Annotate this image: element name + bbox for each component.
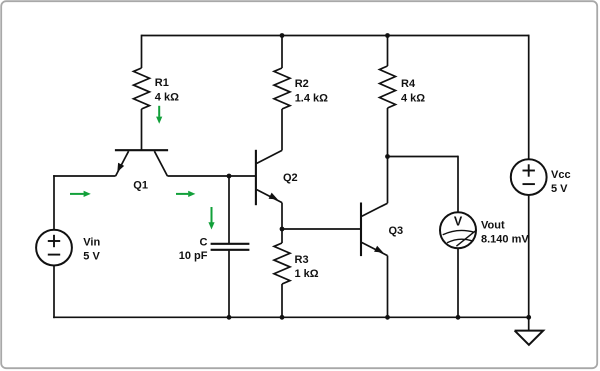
current arrow into Q1 emitter (right) (70, 191, 91, 197)
resistor R3 1 kΩ (274, 243, 319, 284)
svg-text:Vout: Vout (481, 219, 505, 231)
voltmeter Vout 8.140 mV (440, 212, 529, 248)
wire: node C to Q3 collector (387, 157, 389, 204)
svg-text:4 kΩ: 4 kΩ (401, 92, 425, 104)
junction: C / ground rail (227, 315, 232, 320)
resistor R1 4 kΩ (134, 68, 180, 109)
current arrow from Q1 collector (right) (176, 191, 195, 197)
svg-text:1.4 kΩ: 1.4 kΩ (295, 92, 328, 104)
svg-text:Vcc: Vcc (551, 169, 571, 181)
ground (515, 317, 544, 345)
wire: voltmeter top lead (457, 156, 459, 213)
svg-text:5 V: 5 V (551, 183, 568, 195)
voltage source Vcc 5 V (511, 159, 571, 195)
wire: node B to Q3 base (282, 228, 360, 230)
svg-text:R1: R1 (155, 77, 169, 89)
wire: R4 top to rail (387, 36, 389, 67)
svg-text:10 pF: 10 pF (179, 250, 208, 262)
junction: Q3 emitter / ground rail (385, 315, 390, 320)
wire: Q1 collector to node A and Q2 base (167, 175, 256, 177)
wire: capacitor C bottom to ground rail (228, 251, 230, 318)
wire: Q1 emitter to Vin (53, 175, 115, 177)
transistor Q1 (NPN) (115, 150, 168, 191)
wire: node C to voltmeter (388, 156, 459, 158)
resistor R2 1.4 kΩ (274, 68, 328, 109)
svg-text:R4: R4 (401, 78, 416, 90)
svg-text:Vin: Vin (83, 236, 100, 248)
wire: R4 bottom to node C (387, 108, 389, 157)
svg-text:Q3: Q3 (389, 225, 404, 237)
transistor Q3 (NPN) (361, 203, 403, 257)
wire: Vcc bottom to ground rail (528, 195, 530, 317)
wire: R1 top to rail (141, 35, 143, 68)
wire: node B to R3 top (281, 229, 283, 243)
wire: Vin bottom lead (53, 265, 55, 318)
current arrow into capacitor C (down) (208, 207, 214, 230)
wire: rail to Vcc top (528, 35, 530, 160)
svg-text:R2: R2 (295, 78, 309, 90)
current arrow through R1 (down) (156, 106, 162, 124)
svg-text:Q2: Q2 (283, 172, 298, 184)
junction: node C (R4, Q3 collector, voltmeter) (385, 154, 390, 159)
transistor Q2 (NPN) (256, 150, 298, 205)
resistor R4 4 kΩ (380, 66, 426, 108)
svg-text:C: C (200, 237, 208, 249)
junction: node A (Q1 collector, C, Q2 base) (227, 174, 232, 179)
svg-text:1 kΩ: 1 kΩ (295, 268, 319, 280)
wire: node A to capacitor C top (228, 176, 230, 243)
wire: R3 bottom to ground rail (281, 284, 283, 317)
wire: voltmeter bottom lead (457, 248, 459, 317)
svg-text:R3: R3 (295, 254, 309, 266)
svg-text:4 kΩ: 4 kΩ (155, 91, 179, 103)
junction: voltmeter / ground rail (456, 315, 461, 320)
junction: ground node (526, 315, 531, 320)
svg-text:8.140 mV: 8.140 mV (481, 234, 529, 246)
wire: R2 top to rail (281, 36, 283, 69)
wire: bottom ground rail (53, 316, 529, 318)
capacitor C 10 pF (179, 237, 250, 262)
voltage source Vin 5 V (36, 230, 100, 266)
wire: Vin top lead (53, 175, 55, 230)
junction: R4 / top rail (385, 33, 390, 38)
svg-text:5 V: 5 V (83, 251, 100, 263)
wire: Q2 emitter to node B (281, 203, 283, 229)
svg-text:Q1: Q1 (133, 179, 148, 191)
wire: R2 bottom to Q2 collector (281, 109, 283, 150)
junction: node B (Q2 emitter, R3, Q3 base) (280, 227, 285, 232)
wire: Q3 emitter to ground rail (387, 256, 389, 318)
junction: R3 / ground rail (280, 315, 285, 320)
wire: R1 bottom to Q1 base (141, 109, 143, 150)
svg-text:V: V (454, 215, 463, 229)
wire: top supply rail (142, 35, 529, 37)
junction: R2 / top rail (280, 33, 285, 38)
